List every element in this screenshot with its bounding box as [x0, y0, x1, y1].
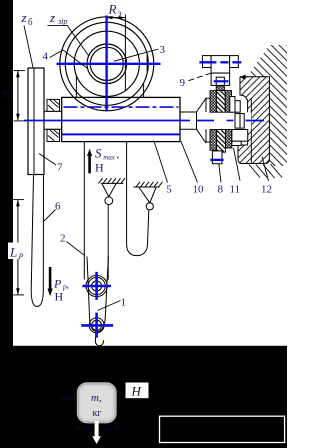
svg-text:1: 1: [121, 297, 127, 309]
svg-text:б: б: [28, 17, 33, 27]
svg-text:6: 6: [55, 201, 61, 213]
svg-text:зір: зір: [57, 17, 67, 26]
svg-text:3: 3: [160, 44, 166, 56]
svg-text:z: z: [21, 10, 27, 25]
svg-text:11: 11: [230, 184, 241, 196]
svg-text:9: 9: [180, 77, 186, 89]
svg-text:m,: m,: [91, 392, 102, 404]
svg-text:з: з: [118, 8, 122, 18]
svg-text:P: P: [53, 277, 62, 291]
svg-text:7: 7: [57, 162, 63, 174]
svg-text:Н: Н: [55, 290, 64, 304]
svg-text:5: 5: [166, 184, 172, 196]
svg-text:Н: Н: [95, 161, 104, 175]
svg-text:10: 10: [193, 184, 205, 196]
svg-text:H: H: [131, 384, 142, 399]
svg-text:4: 4: [43, 51, 49, 63]
svg-text:маса: маса: [59, 393, 76, 402]
svg-text:L: L: [9, 245, 17, 260]
svg-text:Р: Р: [18, 252, 24, 261]
svg-text:кг: кг: [93, 408, 102, 419]
svg-text:z: z: [49, 10, 55, 25]
svg-text:G, Н: G, Н: [104, 423, 121, 432]
svg-text:S: S: [95, 146, 102, 161]
svg-text:б: б: [9, 94, 13, 102]
svg-text:12: 12: [261, 184, 272, 196]
svg-text:,: ,: [117, 149, 120, 161]
svg-text:max: max: [103, 154, 116, 162]
svg-text:R: R: [108, 2, 117, 17]
svg-text:вага: вага: [75, 423, 90, 432]
svg-text:8: 8: [218, 184, 224, 196]
svg-text:,: ,: [67, 280, 70, 291]
svg-text:2: 2: [60, 233, 66, 245]
